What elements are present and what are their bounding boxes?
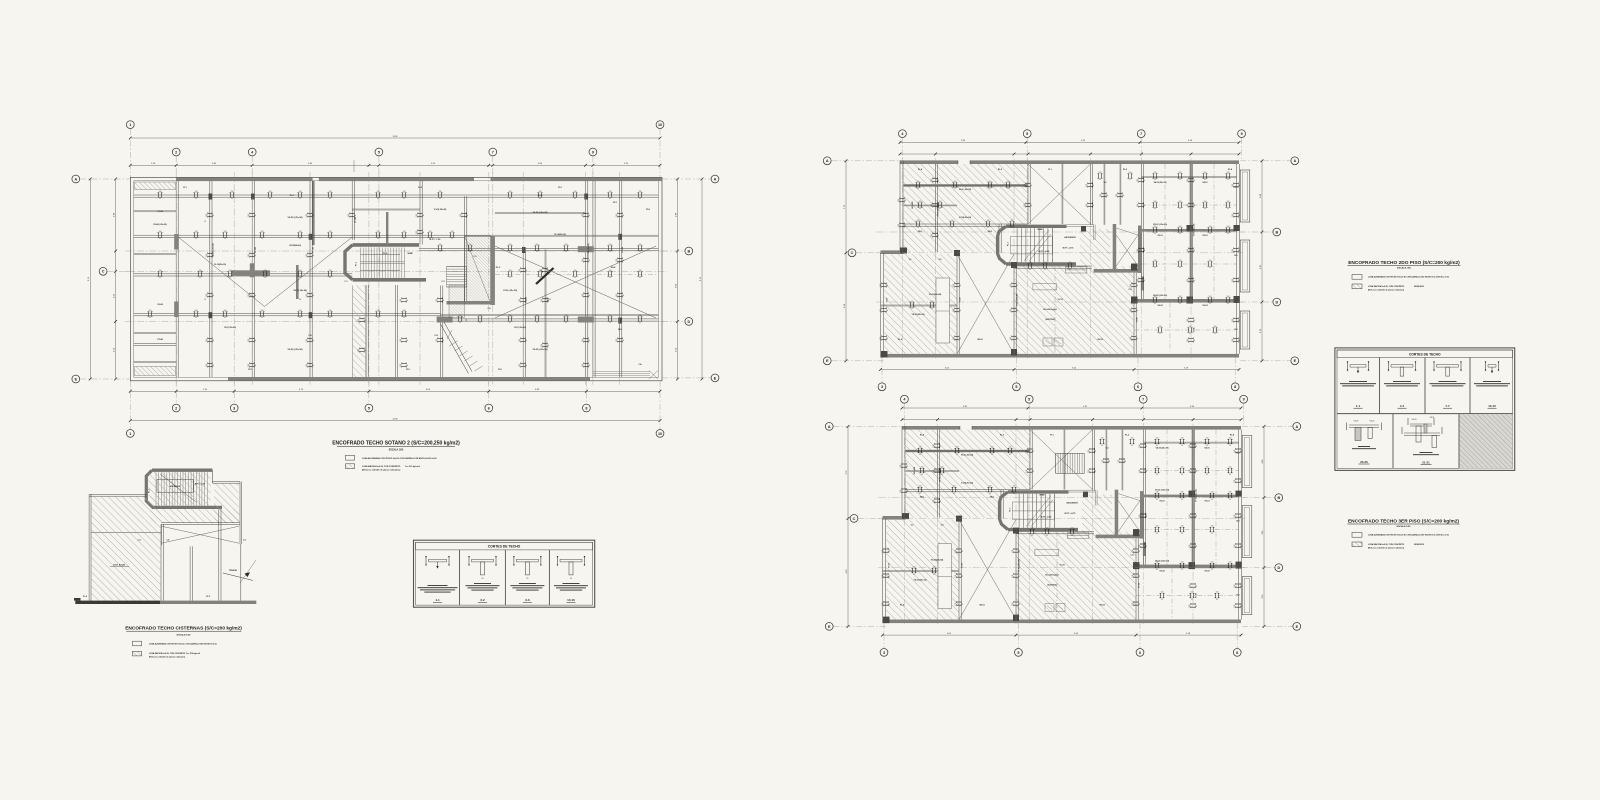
plan sotano 2 - columns [174,194,622,324]
svg-text:.35: .35 [1239,249,1241,251]
svg-text:.35: .35 [1179,179,1181,181]
title encofrado techo 2do piso [1348,260,1461,270]
svg-text:1.50: 1.50 [1031,528,1034,530]
svg-text:.35: .35 [1029,269,1031,271]
svg-text:.35: .35 [1194,279,1196,281]
svg-text:1-1: 1-1 [466,319,468,322]
svg-text:.35: .35 [565,322,567,324]
svg-text:1.50: 1.50 [1024,184,1026,187]
table right - section 20-20 [1347,421,1382,465]
svg-text:1.50: 1.50 [1010,309,1012,312]
svg-text:VT-03: VT-03 [960,298,962,303]
svg-text:1.50: 1.50 [1046,528,1049,530]
svg-text:SUBE: SUBE [1039,495,1045,497]
svg-text:.35: .35 [623,294,625,296]
svg-text:8: 8 [1234,385,1236,389]
svg-text:1.50: 1.50 [224,231,227,233]
svg-text:.35: .35 [1181,445,1183,447]
svg-text:1.50: 1.50 [299,191,302,193]
svg-text:.35: .35 [1211,533,1213,535]
plan cisternas - tank hatch [91,496,161,600]
svg-text:1.50: 1.50 [639,191,642,193]
svg-text:SUBE: SUBE [407,253,413,255]
svg-text:VS-01 (.25x.50): VS-01 (.25x.50) [1153,224,1167,226]
svg-text:PL-4: PL-4 [83,595,87,598]
svg-text:3-3: 3-3 [525,598,530,602]
svg-text:VT-03: VT-03 [962,563,964,568]
svg-text:1.50: 1.50 [264,270,267,272]
plan piso 2 - labels [887,168,1238,341]
svg-text:1.50: 1.50 [400,299,402,302]
svg-text:.35: .35 [1017,337,1019,339]
svg-text:Pl-8: Pl-8 [646,209,649,211]
svg-text:1.50: 1.50 [1086,184,1088,187]
svg-text:1.50: 1.50 [582,214,584,217]
svg-text:C-3: C-3 [441,281,444,283]
svg-text:(Refuerzo s/detalle de planos: (Refuerzo s/detalle de planos indicados) [1368,288,1405,291]
svg-text:.35: .35 [609,198,611,200]
svg-text:1.50: 1.50 [582,294,584,297]
svg-text:N.P.T. +8.75: N.P.T. +8.75 [1065,513,1077,515]
svg-text:V-CH: V-CH [1060,565,1065,567]
svg-text:VS-01: VS-01 [1204,501,1209,503]
svg-text:VS-01: VS-01 [1157,235,1162,237]
svg-text:VT-07: VT-07 [887,298,889,303]
svg-text:3: 3 [233,406,235,410]
svg-text:.35: .35 [962,603,964,605]
svg-text:1.50: 1.50 [1154,260,1157,262]
svg-text:15.85: 15.85 [392,418,398,420]
svg-text:.35: .35 [329,238,331,240]
svg-text:1.50: 1.50 [1156,526,1159,528]
svg-text:1.50: 1.50 [1181,438,1184,440]
svg-text:1.50: 1.50 [1179,296,1182,298]
svg-text:A: A [826,159,829,163]
svg-text:1.50: 1.50 [1234,585,1236,588]
svg-text:1.50: 1.50 [1189,545,1191,548]
svg-text:VT-05 (.25x.50): VT-05 (.25x.50) [1194,223,1196,236]
svg-text:.35: .35 [1137,309,1139,311]
svg-text:B: B [1275,230,1278,234]
svg-text:V-CH: V-CH [1058,299,1063,301]
svg-text:.35: .35 [329,317,331,319]
svg-text:.35: .35 [451,238,453,240]
svg-text:.35: .35 [589,214,591,216]
svg-text:Pl-5: Pl-5 [406,369,409,371]
svg-text:1.50: 1.50 [348,214,350,217]
plan piso 3 - top dimensions [901,406,1243,421]
svg-text:.35: .35 [919,493,921,495]
svg-text:.35: .35 [407,364,409,366]
svg-text:1.50: 1.50 [329,270,332,272]
svg-text:VA-01: VA-01 [1202,181,1207,184]
svg-text:1.50: 1.50 [1181,492,1184,494]
svg-text:LOSA ALIGERADA CON TECHO H=0.2: LOSA ALIGERADA CON TECHO H=0.20 M, CON L… [1368,276,1449,279]
plan sotano 2 - large cross diagonals left [178,237,352,307]
svg-text:1.50: 1.50 [1179,201,1182,203]
svg-text:.35: .35 [1144,204,1146,206]
plan piso 3 - outer walls [883,426,1242,623]
plan sotano 2 - grid bubbles right side [662,175,719,382]
svg-text:1.50: 1.50 [541,344,543,347]
svg-text:1.50: 1.50 [880,309,882,312]
svg-text:VT-01 (.25x.50): VT-01 (.25x.50) [940,469,942,482]
svg-text:1.50: 1.50 [1234,515,1236,518]
svg-text:.35: .35 [299,198,301,200]
svg-text:1.50: 1.50 [1156,467,1159,469]
svg-text:1.50: 1.50 [1179,172,1182,174]
svg-text:(Refuerzo s/detalle de planos: (Refuerzo s/detalle de planos indicados) [149,656,186,659]
plan sotano 2 - large cross diagonals right [495,246,656,318]
plan cisternas - tank room walls [89,494,241,600]
svg-text:.35: .35 [1033,470,1035,472]
svg-text:.35: .35 [954,188,956,190]
plan piso 3 - hatch zones [886,430,1136,620]
svg-text:1.50: 1.50 [616,259,618,262]
svg-text:21-21: 21-21 [1422,460,1430,464]
svg-text:1.50: 1.50 [639,270,642,272]
svg-text:.35: .35 [907,465,909,467]
plan piso 2 - top bubbles [899,130,1246,161]
svg-text:.35: .35 [1011,227,1013,229]
svg-text:.35: .35 [962,575,964,577]
svg-text:.35: .35 [989,188,991,190]
svg-text:1.50: 1.50 [231,191,234,193]
svg-text:VT-104 (.25x.50): VT-104 (.25x.50) [587,243,590,257]
svg-text:1.50: 1.50 [248,339,250,342]
svg-text:1.50: 1.50 [159,191,162,193]
svg-text:.35: .35 [1194,319,1196,321]
svg-text:.35: .35 [1107,194,1109,196]
svg-text:ENCOFRADO TECHO 3ER PISO (S/C=: ENCOFRADO TECHO 3ER PISO (S/C=200 kg/m2) [1348,519,1459,525]
title encofrado techo cisternas [125,626,242,637]
svg-text:VS-02: VS-02 [1204,571,1209,573]
svg-text:1.50: 1.50 [509,191,512,193]
svg-text:1.50: 1.50 [1227,226,1230,228]
svg-text:1.50: 1.50 [1179,260,1182,262]
svg-text:1.50: 1.50 [460,214,462,217]
svg-text:1.50: 1.50 [639,315,642,317]
svg-text:.35: .35 [574,198,576,200]
svg-text:1.50: 1.50 [919,201,922,203]
svg-text:LOSA MACIZA H=0.20, CON CONCRE: LOSA MACIZA H=0.20, CON CONCRETO [149,652,186,655]
svg-text:VS-05(.25x.50): VS-05(.25x.50) [912,314,925,316]
svg-text:1.50: 1.50 [955,603,957,606]
svg-text:10: 10 [658,123,662,127]
svg-text:C: C [853,517,856,521]
plan piso 3 - rebar tick clusters [882,438,1243,608]
svg-text:CORTES DE TECHO: CORTES DE TECHO [488,545,521,549]
plan piso 2 - stair core [998,225,1096,290]
svg-text:VS-02: VS-02 [1202,305,1207,307]
svg-text:V-101(.25x.50): V-101(.25x.50) [434,209,447,211]
plan cisternas - tensor diagonal [223,560,256,583]
svg-text:1.50: 1.50 [1232,279,1234,282]
table right - section 21-21 [1402,417,1442,465]
svg-text:1.50: 1.50 [1187,204,1189,207]
svg-text:1.50: 1.50 [609,244,612,246]
svg-text:.35: .35 [443,299,445,301]
svg-text:.35: .35 [1206,445,1208,447]
svg-text:1.50: 1.50 [917,220,920,222]
plan piso 2 - rebar tick clusters [880,172,1241,343]
svg-text:.35: .35 [931,308,933,310]
svg-text:7-7: 7-7 [1445,404,1450,408]
svg-text:1.50: 1.50 [1209,260,1212,262]
plan sotano 2 - duct strip hatch below stair [353,286,366,378]
svg-text:1.50: 1.50 [306,254,308,257]
svg-text:1.50: 1.50 [536,244,539,246]
svg-text:.35: .35 [231,198,233,200]
plan sotano 2 - rebar tick clusters [148,191,643,368]
svg-text:7: 7 [1140,132,1142,136]
svg-text:VT-4S: VT-4S [157,210,163,213]
svg-text:.35: .35 [509,251,511,253]
plan sotano 2 - interior beams [134,160,659,377]
plan sotano 2 - bottom dimension lines [129,389,662,422]
svg-text:.35: .35 [1093,204,1095,206]
svg-text:.35: .35 [987,227,989,229]
svg-text:VT-04: VT-04 [1138,583,1141,588]
svg-text:1.50: 1.50 [1204,201,1207,203]
svg-text:Pl-2: Pl-2 [558,187,561,189]
svg-text:PL-5: PL-5 [206,596,210,598]
svg-text:.35: .35 [1139,575,1141,577]
svg-text:1.50: 1.50 [955,575,957,578]
svg-text:VS-01: VS-01 [1159,501,1164,503]
svg-text:1.50: 1.50 [933,445,935,448]
plan sotano 2 - upper flight treads [447,267,467,288]
svg-text:.35: .35 [1131,445,1133,447]
svg-text:1.50: 1.50 [358,319,360,322]
plan piso 2 - interior beams [881,164,1237,354]
svg-text:.35: .35 [1239,339,1241,341]
svg-text:.35: .35 [1227,179,1229,181]
svg-text:1.50: 1.50 [439,191,442,193]
svg-text:.35: .35 [1181,569,1183,571]
svg-text:.35: .35 [1239,184,1241,186]
svg-text:1.50: 1.50 [1187,279,1189,282]
svg-text:1.50: 1.50 [1234,605,1236,608]
svg-text:1.50: 1.50 [1211,562,1214,564]
plan cisternas - upper right room [212,482,241,545]
svg-text:ASCENSOR: ASCENSOR [1066,502,1078,505]
svg-text:S/C=200: S/C=200 [912,201,914,208]
svg-text:D: D [687,320,690,324]
svg-text:VS-4S: VS-4S [157,303,163,306]
svg-text:.35: .35 [403,198,405,200]
plan piso 3 - cross diagonals [959,430,1093,620]
svg-text:VS-7(.25x.50): VS-7(.25x.50) [224,327,236,329]
svg-text:1: 1 [129,432,131,436]
svg-text:.35: .35 [589,339,591,341]
svg-text:5: 5 [1015,385,1017,389]
svg-text:.35: .35 [159,277,161,279]
svg-text:.35: .35 [1139,603,1141,605]
svg-text:.35: .35 [269,198,271,200]
svg-text:Pl-6: Pl-6 [498,369,501,371]
svg-text:1.50: 1.50 [306,364,308,367]
svg-text:ASCENSOR: ASCENSOR [1064,236,1076,239]
svg-text:1.50: 1.50 [1129,172,1132,174]
svg-text:V-CH (.25x.20): V-CH (.25x.20) [503,290,517,292]
svg-text:1.50: 1.50 [1229,438,1232,440]
svg-text:PL-7: PL-7 [149,489,151,493]
svg-text:VT-4S: VT-4S [157,338,163,341]
svg-text:1.50: 1.50 [616,214,618,217]
svg-text:1.50: 1.50 [991,447,994,449]
svg-text:.35: .35 [403,317,405,319]
plan piso 2 - top dimensions [899,140,1241,155]
svg-text:1.50: 1.50 [1132,603,1134,606]
svg-text:1.50: 1.50 [1130,337,1132,340]
svg-text:.35: .35 [355,214,357,216]
svg-text:VS-3S (.25x.50): VS-3S (.25x.50) [288,349,303,351]
svg-text:TENSOR: TENSOR [229,570,238,572]
svg-text:V-3: V-3 [1104,182,1107,184]
svg-text:1.50: 1.50 [377,191,380,193]
svg-text:1.50: 1.50 [206,294,208,297]
svg-text:VS-7(.25x.50): VS-7(.25x.50) [514,327,526,329]
svg-text:1.50: 1.50 [229,270,232,272]
svg-text:.35: .35 [213,214,215,216]
svg-text:.35: .35 [919,208,921,210]
svg-text:.35: .35 [1009,454,1011,456]
svg-text:VT-9: VT-9 [548,298,550,302]
svg-text:1.50: 1.50 [541,299,543,302]
svg-text:1.50: 1.50 [1101,438,1104,440]
svg-text:.35: .35 [195,238,197,240]
svg-text:1.50: 1.50 [1010,337,1012,340]
svg-text:1.50: 1.50 [539,191,542,193]
svg-text:1.50: 1.50 [1069,262,1072,264]
svg-text:7: 7 [1142,398,1144,402]
svg-text:1.50: 1.50 [306,214,308,217]
svg-text:1.50: 1.50 [299,270,302,272]
svg-text:.35: .35 [889,575,891,577]
svg-text:(Refuerzo s/detalle de planos: (Refuerzo s/detalle de planos indicados) [362,469,401,472]
svg-text:.35: .35 [536,322,538,324]
svg-text:ESCALA 1/50: ESCALA 1/50 [1397,267,1412,270]
svg-text:C-2: C-2 [473,256,476,258]
plan piso 3 - balconies [1242,436,1252,615]
svg-text:VS-02: VS-02 [1159,571,1164,573]
svg-text:1.50: 1.50 [1206,438,1209,440]
plan piso 3 - right dimensions and bubbles [1242,423,1301,631]
svg-text:1.50: 1.50 [195,310,198,312]
plan sotano 2 - bottom right vent strip [593,371,659,380]
svg-text:.35: .35 [1196,545,1198,547]
svg-text:.35: .35 [1241,480,1243,482]
svg-text:.35: .35 [1101,445,1103,447]
svg-text:1.50: 1.50 [951,220,954,222]
svg-text:10-10: 10-10 [567,598,575,602]
svg-text:.35: .35 [224,317,226,319]
svg-text:8: 8 [299,299,300,301]
svg-text:.35: .35 [1154,208,1156,210]
svg-text:1.50: 1.50 [1086,204,1088,207]
svg-text:PL-7: PL-7 [1010,508,1012,512]
svg-text:.35: .35 [1129,179,1131,181]
svg-text:.35: .35 [1161,599,1163,601]
plan sotano 2 - stair core walls [345,245,426,280]
svg-text:.35: .35 [1137,284,1139,286]
table center - section 1-1 [418,556,458,602]
svg-text:.35: .35 [1156,499,1158,501]
svg-text:.35: .35 [889,603,891,605]
svg-text:1.50: 1.50 [1156,438,1159,440]
svg-text:1.50: 1.50 [1189,605,1191,608]
plan sotano 2 - grid bubbles top row [126,121,663,178]
svg-text:1.50: 1.50 [565,244,568,246]
svg-text:.35: .35 [423,231,425,233]
svg-text:10-10(25x.20): 10-10(25x.20) [554,234,566,236]
svg-text:.35: .35 [1046,535,1048,537]
svg-text:.35: .35 [1206,474,1208,476]
svg-text:.35: .35 [1216,599,1218,601]
svg-text:f'c= 210 kg/cm2: f'c= 210 kg/cm2 [405,466,421,468]
svg-text:.35: .35 [1179,267,1181,269]
svg-text:1.50: 1.50 [956,447,959,449]
table right - section 1-1 [1340,361,1376,408]
svg-text:VT-05 (.25x.50): VT-05 (.25x.50) [1196,489,1198,502]
svg-text:VS-05(25x50): VS-05(25x50) [929,294,942,296]
svg-text:.35: .35 [365,319,367,321]
svg-text:1.50: 1.50 [269,191,272,193]
svg-text:.35: .35 [1241,450,1243,452]
svg-text:1.50: 1.50 [436,299,438,302]
svg-text:1.50: 1.50 [953,337,955,340]
svg-text:1.50: 1.50 [1187,339,1189,342]
svg-text:1.50: 1.50 [1009,447,1012,449]
svg-text:N.P.T. -7.50: N.P.T. -7.50 [430,239,442,241]
svg-text:.35: .35 [1137,337,1139,339]
svg-text:5: 5 [1028,398,1030,402]
svg-text:.35: .35 [1241,585,1243,587]
svg-text:ENCOFRADO TECHO SOTANO 2 (S/C=: ENCOFRADO TECHO SOTANO 2 (S/C=200,250 kg… [332,441,460,447]
svg-text:.35: .35 [1229,474,1231,476]
svg-text:.35: .35 [623,259,625,261]
svg-text:.35: .35 [1204,208,1206,210]
svg-text:VT-07: VT-07 [889,563,891,568]
svg-text:.35: .35 [467,214,469,216]
svg-text:SUBE: SUBE [1037,229,1043,231]
svg-text:.35: .35 [255,339,257,341]
svg-text:.35: .35 [299,317,301,319]
svg-text:1.50: 1.50 [519,269,521,272]
svg-text:.35: .35 [1095,450,1097,452]
svg-text:15.85: 15.85 [392,136,398,138]
title encofrado techo 3er piso [1348,519,1460,529]
svg-text:.35: .35 [1013,493,1015,495]
svg-text:1.50: 1.50 [1024,204,1026,207]
svg-text:VT-02 (.25x.50): VT-02 (.25x.50) [1019,559,1021,572]
svg-text:.35: .35 [1229,445,1231,447]
svg-text:1.50: 1.50 [919,447,922,449]
svg-text:1.50: 1.50 [1071,528,1074,530]
svg-text:1.50: 1.50 [1154,226,1157,228]
svg-text:1.50: 1.50 [206,214,208,217]
svg-text:.35: .35 [917,227,919,229]
table right - section 10-10 [1474,361,1510,408]
svg-text:1.50: 1.50 [900,465,902,468]
svg-text:.35: .35 [940,445,942,447]
svg-text:.35: .35 [921,474,923,476]
svg-text:LOSA MACIZA H=0.20, CON CONCRE: LOSA MACIZA H=0.20, CON CONCRETO [1368,285,1405,288]
svg-text:.35: .35 [639,322,641,324]
svg-text:1.50: 1.50 [609,315,612,317]
svg-text:1.50: 1.50 [609,191,612,193]
